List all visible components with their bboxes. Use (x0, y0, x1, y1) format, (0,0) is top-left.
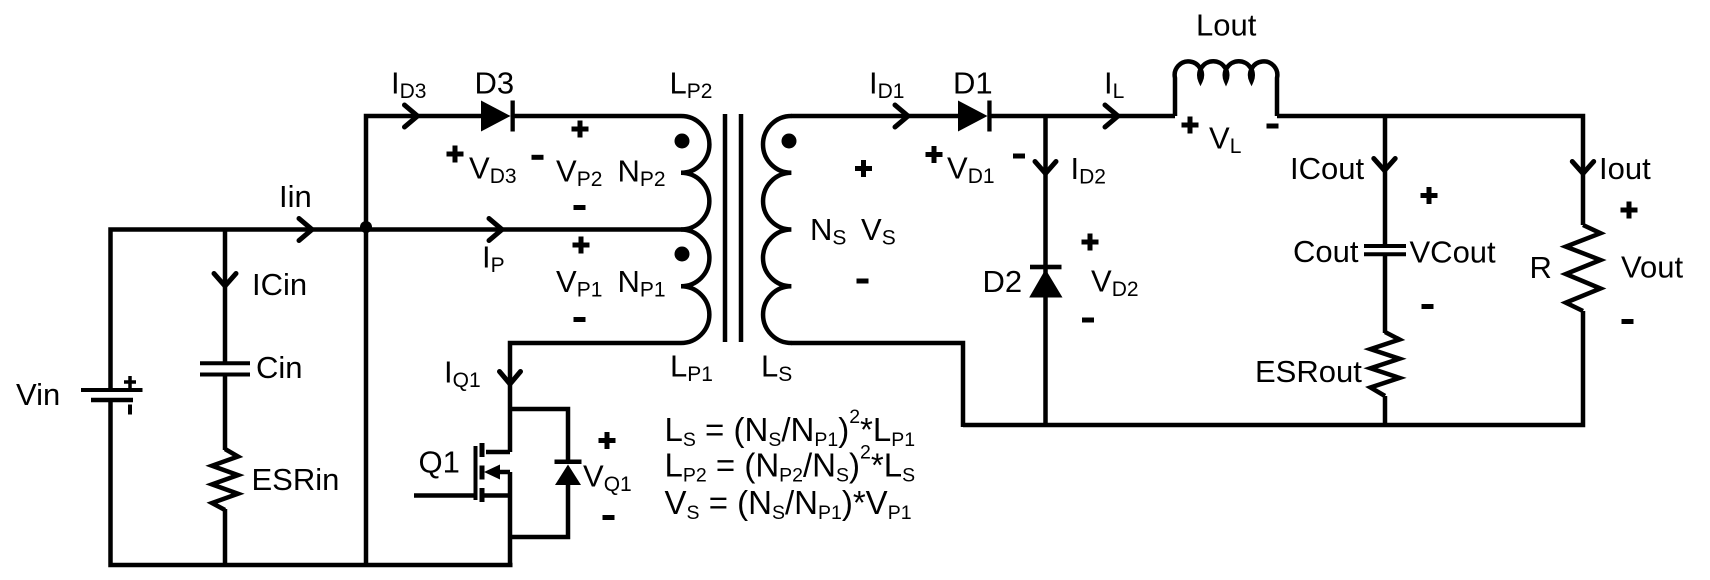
capacitor Cout plates (1364, 244, 1406, 248)
arrow Iin (299, 219, 312, 241)
minus Vout (1622, 319, 1634, 324)
wire body diode bottom link (510, 484, 568, 537)
arrow IL (1105, 105, 1118, 127)
minus VD2 (1082, 318, 1094, 323)
minus VS (857, 279, 869, 284)
svg-text:VCout: VCout (1410, 235, 1497, 270)
transistor Q1 source lead (484, 493, 510, 498)
inductor Lout (1175, 61, 1278, 116)
resistor ESRin (212, 449, 238, 510)
svg-text:R: R (1530, 250, 1552, 285)
minus VL (1267, 124, 1279, 129)
svg-text:ESRout: ESRout (1255, 354, 1362, 389)
svg-text:LS = (NS/NP1)2*LP1: LS = (NS/NP1)2*LP1 (665, 406, 916, 451)
svg-text:ID1: ID1 (869, 66, 904, 104)
wire Cin branch upper (223, 230, 228, 362)
battery Vin plates (81, 388, 143, 392)
svg-text:VP2: VP2 (556, 154, 602, 192)
wire IP primary middle (366, 227, 681, 232)
arrow IP (489, 219, 502, 241)
transistor Q1 channel bar top (480, 443, 485, 457)
svg-text:LP1: LP1 (670, 349, 713, 387)
svg-text:ID3: ID3 (391, 66, 426, 104)
polarity dot LS (782, 134, 797, 149)
svg-text:Vout: Vout (1621, 250, 1683, 285)
wire Lout to right edge down to R (1277, 116, 1583, 225)
plus VD1 (926, 146, 943, 163)
svg-text:D1: D1 (953, 66, 993, 101)
wire D3 branch right segment to LP2 (511, 114, 681, 119)
svg-text:VD2: VD2 (1091, 264, 1139, 302)
svg-text:IP: IP (482, 240, 505, 278)
plus VQ1 (599, 432, 616, 449)
wire Cin branch between cap and ESRin (223, 376, 228, 450)
svg-text:VS: VS (861, 212, 896, 250)
wire secondary top to D1 (791, 114, 959, 119)
resistor ESRout (1371, 332, 1400, 396)
svg-text:Q1: Q1 (419, 445, 460, 480)
svg-text:NP1: NP1 (618, 264, 666, 302)
svg-text:LP2: LP2 (670, 66, 713, 104)
diode body of Q1 (555, 460, 582, 465)
transistor Q1 gate lead (414, 493, 474, 498)
svg-text:D2: D2 (983, 264, 1023, 299)
winding LP1 (681, 230, 709, 344)
minus VD1 (1013, 154, 1025, 159)
svg-text:VL: VL (1209, 121, 1241, 159)
diode D1 (958, 101, 988, 132)
minus VP2 (574, 205, 586, 210)
diode D3 (481, 101, 511, 132)
transistor Q1 channel bar bottom (480, 488, 485, 502)
svg-text:Cout: Cout (1293, 234, 1359, 269)
svg-text:VS = (NS/NP1)*VP1: VS = (NS/NP1)*VP1 (665, 484, 912, 524)
svg-text:Lout: Lout (1196, 8, 1257, 43)
plus VP2 (572, 121, 589, 138)
wire Iin top-left horizontal and left vertical above battery (111, 230, 367, 389)
plus VL (1182, 117, 1199, 134)
minus VQ1 (603, 515, 615, 520)
minus VP1 (574, 317, 586, 322)
plus VP1 (573, 237, 590, 254)
svg-text:D3: D3 (475, 66, 515, 101)
arrow ICout (1374, 159, 1395, 171)
plus VS (855, 160, 872, 177)
transistor Q1 body connection (497, 470, 510, 475)
arrow IQ1 (500, 372, 521, 385)
svg-text:ICin: ICin (252, 267, 307, 302)
svg-text:ID2: ID2 (1071, 151, 1106, 189)
transistor Q1 channel bar middle (480, 466, 485, 480)
minus VCout (1422, 304, 1434, 309)
arrow ID3 (405, 105, 418, 127)
wire D2 branch vertical (1043, 116, 1048, 425)
transistor Q1 drain lead (486, 450, 510, 455)
svg-text:VQ1: VQ1 (583, 459, 632, 497)
svg-text:VD3: VD3 (469, 151, 517, 189)
svg-text:NP2: NP2 (618, 154, 666, 192)
transformer core line 2 (739, 114, 744, 342)
wire below R resistor and bottom-right rail (963, 311, 1583, 425)
svg-text:NS: NS (810, 212, 846, 250)
wire left vertical below battery and bottom-left ground rail (111, 401, 513, 565)
resistor R load (1566, 225, 1601, 311)
plus Vout (1621, 202, 1638, 219)
svg-text:LP2 = (NP2/NS)2*LS: LP2 = (NP2/NS)2*LS (665, 442, 916, 487)
svg-text:Cin: Cin (256, 350, 303, 385)
svg-text:IQ1: IQ1 (444, 355, 481, 393)
transistor Q1 gate bar (474, 446, 478, 500)
transformer core line 1 (723, 114, 728, 342)
diode D2 (1030, 265, 1062, 270)
plus VCout (1421, 187, 1438, 204)
plus VD2 (1082, 234, 1099, 251)
junction dot at Iin node (360, 221, 372, 233)
polarity dot LP1 (675, 247, 690, 262)
arrowhead Q1 body terminal (484, 465, 500, 480)
svg-text:VD1: VD1 (947, 151, 995, 189)
wire body diode top link (510, 409, 568, 462)
battery minus tick (128, 405, 132, 415)
arrow Iout (1572, 162, 1593, 174)
svg-text:ICout: ICout (1290, 151, 1364, 186)
battery plus sign (124, 376, 136, 388)
wire D1 to Lout (988, 114, 1175, 119)
winding LS secondary (763, 116, 791, 343)
svg-text:VP1: VP1 (556, 264, 602, 302)
svg-text:Vin: Vin (16, 377, 60, 412)
svg-text:Iout: Iout (1599, 151, 1651, 186)
svg-text:ESRin: ESRin (252, 462, 340, 497)
arrow ID1 (895, 105, 908, 127)
arrow ICin (214, 274, 236, 287)
plus VD3 (447, 146, 464, 163)
wire Cin branch below ESRin (223, 509, 228, 565)
arrow ID2 (1035, 162, 1056, 174)
svg-text:LS: LS (761, 349, 792, 387)
wire Cout branch cap to ESRout (1383, 254, 1388, 333)
wire Cout branch above cap (1383, 116, 1388, 246)
capacitor Cin plates (200, 361, 250, 365)
winding LP2 (681, 116, 709, 230)
svg-text:Iin: Iin (279, 179, 312, 214)
polarity dot LP2 (675, 134, 690, 149)
wire LP1 bottom to Q1 drain (510, 343, 681, 452)
wire secondary bottom with corner down (791, 343, 963, 427)
svg-text:IL: IL (1104, 66, 1124, 104)
wire Q1 source down to rail (508, 472, 513, 565)
minus VD3 (532, 155, 544, 160)
wire vertical at x=366 with corner to D3 branch (366, 116, 482, 565)
wire Cout branch below ESRout (1383, 396, 1388, 425)
